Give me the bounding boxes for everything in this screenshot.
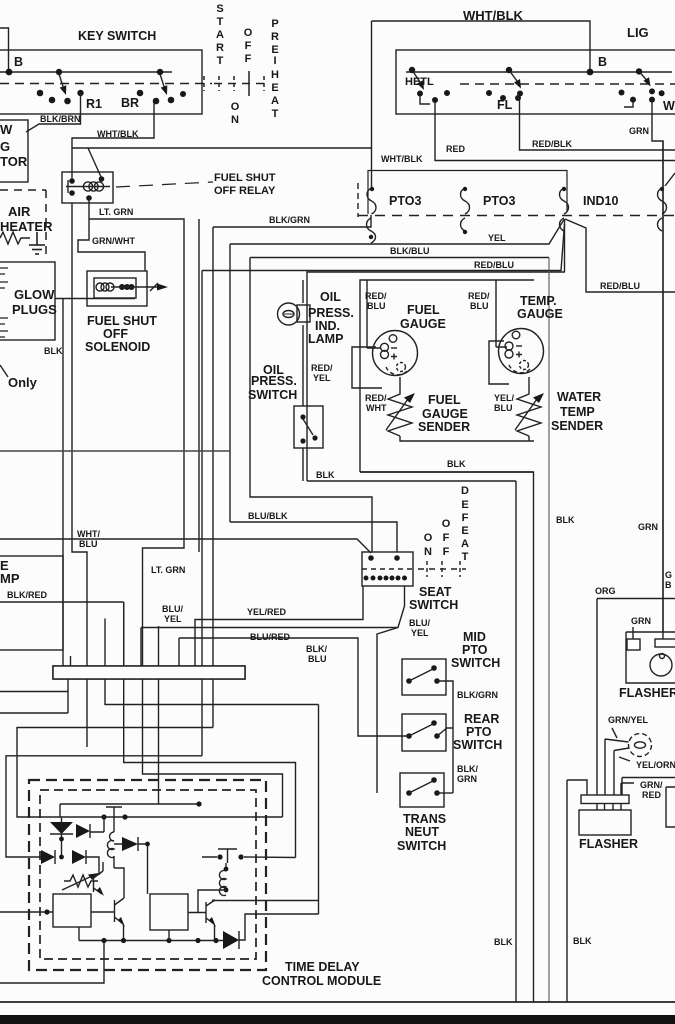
svg-text:FUEL: FUEL — [407, 303, 440, 317]
svg-text:RED/: RED/ — [365, 291, 387, 301]
glow resistor box (left, cut) — [0, 120, 28, 182]
svg-text:R: R — [271, 31, 279, 43]
svg-text:GRN: GRN — [457, 774, 477, 784]
svg-text:PTO3: PTO3 — [389, 194, 421, 208]
svg-text:RED/BLK: RED/BLK — [532, 139, 572, 149]
svg-text:LT. GRN: LT. GRN — [99, 207, 133, 217]
svg-text:F: F — [245, 40, 252, 52]
svg-text:GRN: GRN — [638, 522, 658, 532]
svg-text:RED/BLU: RED/BLU — [600, 281, 640, 291]
svg-text:WHT/BLK: WHT/BLK — [463, 8, 524, 23]
coil L3 (module) — [198, 863, 228, 913]
wire x213 (BLK/GRN ground run) — [212, 227, 214, 728]
connector #4 (right) — [658, 187, 667, 231]
connector row frame — [368, 171, 567, 215]
svg-text:LT. GRN: LT. GRN — [151, 565, 185, 575]
IC block A2 — [150, 894, 188, 930]
wire RED/BLU right — [565, 219, 675, 292]
connector PTO3 #1 — [367, 187, 377, 243]
bus bar overlay — [53, 666, 245, 679]
svg-text:HETL: HETL — [405, 76, 434, 88]
svg-text:SWITCH: SWITCH — [397, 839, 446, 853]
wire BR to relay and WHT/BLK feed — [72, 103, 154, 181]
light switch box — [396, 50, 675, 114]
svg-text:BLU/BLK: BLU/BLK — [248, 511, 288, 521]
wire y628 — [141, 628, 398, 667]
oil pressure indicator lamp — [278, 303, 311, 325]
DEFEAT column — [424, 485, 469, 563]
wire seat diag feed — [0, 539, 371, 553]
svg-text:FUEL SHUT: FUEL SHUT — [87, 314, 157, 328]
svg-text:P: P — [271, 18, 278, 30]
wire x158 BLU/YEL#2 — [60, 626, 199, 804]
svg-text:BLU: BLU — [367, 301, 386, 311]
key switch dashed position line — [0, 83, 212, 85]
svg-text:YEL/RED: YEL/RED — [247, 607, 287, 617]
svg-text:BLK/BRN: BLK/BRN — [40, 114, 81, 124]
key switch contact dots row 2 — [137, 90, 186, 105]
key switch contact line — [0, 71, 172, 73]
svg-text:G: G — [665, 570, 672, 580]
svg-text:BLK/GRN: BLK/GRN — [269, 215, 310, 225]
svg-text:PTO: PTO — [466, 725, 492, 739]
svg-text:GAUGE: GAUGE — [517, 307, 563, 321]
svg-text:GLOW: GLOW — [14, 287, 55, 302]
wire GRN to flasher1 — [662, 141, 664, 639]
svg-text:MID: MID — [463, 630, 486, 644]
diode D6 — [223, 914, 319, 949]
svg-text:BLK/RED: BLK/RED — [7, 590, 47, 600]
svg-text:ORG: ORG — [595, 586, 616, 596]
wires into bus bar top — [62, 650, 64, 666]
IC block A1 — [53, 894, 91, 927]
key switch contact dots row 1 — [37, 90, 84, 105]
wire HETL RED drop — [435, 102, 675, 161]
svg-text:YEL: YEL — [488, 233, 506, 243]
wire diag right edge — [665, 173, 675, 186]
wire GRN from light switch — [652, 102, 663, 632]
wire ORG — [597, 599, 675, 796]
wire x621 — [621, 783, 634, 795]
svg-text:B: B — [14, 55, 23, 69]
svg-text:FL: FL — [497, 98, 513, 112]
svg-text:IND.: IND. — [315, 319, 340, 333]
relay contact K1 (module) — [202, 849, 296, 863]
svg-text:SENDER: SENDER — [418, 420, 470, 434]
wire module ground exit — [0, 941, 104, 984]
svg-text:IND10: IND10 — [583, 194, 618, 208]
seat switch position ticks — [418, 561, 466, 577]
ground (air heater) — [29, 232, 45, 254]
svg-text:F: F — [443, 532, 450, 544]
svg-text:REAR: REAR — [464, 712, 499, 726]
label leaders — [612, 728, 617, 738]
svg-text:BLU/RED: BLU/RED — [250, 632, 290, 642]
air heater resistor — [0, 232, 30, 244]
svg-text:BLK: BLK — [316, 470, 335, 480]
svg-text:E: E — [271, 82, 278, 94]
wire x213 to module — [17, 728, 213, 818]
connector IND10 — [560, 187, 569, 231]
svg-text:FUEL SHUT: FUEL SHUT — [214, 172, 276, 184]
fuel gauge bracket — [352, 347, 382, 388]
svg-text:W.: W. — [663, 99, 675, 113]
wire fuel gauge feed — [367, 280, 380, 348]
wire A1 bottom — [78, 927, 80, 941]
key switch position ticks — [204, 71, 270, 96]
svg-text:WHT: WHT — [366, 403, 387, 413]
svg-text:GRN/: GRN/ — [640, 780, 663, 790]
svg-text:BLK: BLK — [494, 937, 513, 947]
svg-text:T: T — [272, 108, 279, 120]
svg-text:RED/: RED/ — [311, 363, 333, 373]
wire BLK/GRN pto3 — [213, 215, 371, 227]
svg-text:SEAT: SEAT — [419, 585, 452, 599]
oil pressure switch S1 — [294, 406, 323, 448]
START column — [216, 3, 279, 126]
wire rear pto chain — [452, 736, 454, 793]
wire lamp top to box — [302, 280, 304, 303]
svg-text:YEL/ORN: YEL/ORN — [636, 760, 675, 770]
wire BLK ground drop x528 — [533, 472, 535, 1002]
svg-text:GRN: GRN — [631, 616, 651, 626]
lamp box left (cut) — [0, 556, 63, 650]
svg-text:GRN: GRN — [629, 126, 649, 136]
svg-text:BLU/: BLU/ — [162, 604, 183, 614]
svg-text:RED: RED — [642, 790, 662, 800]
wire seat feed left — [250, 258, 372, 553]
svg-text:GRN/YEL: GRN/YEL — [608, 715, 649, 725]
svg-text:T: T — [462, 551, 469, 563]
wires to flasher2 — [605, 739, 629, 795]
svg-text:SWITCH: SWITCH — [248, 388, 297, 402]
wire mid pto down — [437, 681, 453, 736]
wires below bus bar — [0, 679, 68, 713]
dashed border left (air heater region) — [0, 189, 46, 191]
wire YEL to IND10 — [230, 220, 564, 245]
wire BLU/RED to rear pto — [179, 638, 409, 736]
seat switch S2 — [362, 552, 413, 586]
rear pto switch S4 — [402, 714, 453, 751]
svg-text:PTO: PTO — [462, 643, 488, 657]
wire WHT/BLK to PTO3 — [72, 147, 372, 149]
flasher 2 connector — [579, 795, 631, 835]
svg-text:BLK/: BLK/ — [306, 644, 327, 654]
svg-text:WATER: WATER — [557, 390, 601, 404]
light switch dashed position line — [460, 83, 675, 85]
svg-text:YEL: YEL — [313, 373, 331, 383]
svg-text:NEUT: NEUT — [405, 825, 439, 839]
svg-text:S: S — [216, 3, 223, 15]
resistor R1 (module) — [64, 875, 98, 887]
svg-text:FLASHER: FLASHER — [579, 837, 638, 851]
svg-text:FUEL: FUEL — [428, 393, 461, 407]
connector row dashed left riser — [357, 183, 359, 217]
wire BLK gauge inner box bottom — [360, 471, 534, 473]
svg-text:RED: RED — [446, 144, 466, 154]
inner lamp rect — [666, 787, 675, 827]
svg-text:RED/: RED/ — [468, 291, 490, 301]
svg-text:HEATER: HEATER — [0, 219, 53, 234]
svg-text:BLK: BLK — [556, 515, 575, 525]
light switch contact line — [406, 71, 672, 73]
svg-text:TIME DELAY: TIME DELAY — [285, 960, 360, 974]
svg-text:SOLENOID: SOLENOID — [85, 340, 150, 354]
svg-text:SWITCH: SWITCH — [451, 656, 500, 670]
wire BLK/BLU to x551 — [250, 257, 549, 259]
wire module entry y912 — [0, 911, 53, 913]
wire WHT/BLK riser to light switch — [372, 21, 591, 188]
wire sender ground bus — [400, 436, 534, 441]
svg-text:KEY SWITCH: KEY SWITCH — [78, 29, 156, 43]
wire FL RED/BLK drop — [520, 100, 675, 150]
light switch blade FL — [486, 67, 523, 101]
svg-text:A: A — [461, 538, 469, 550]
module cap contact top — [106, 807, 122, 817]
svg-text:WHT/BLK: WHT/BLK — [381, 154, 423, 164]
diode D4 — [41, 850, 55, 864]
diode D5 — [72, 850, 86, 864]
svg-text:R1: R1 — [86, 97, 102, 111]
wire top-left entry — [0, 28, 9, 72]
svg-text:R: R — [216, 42, 224, 54]
module top rail — [51, 816, 283, 818]
wire lamp to switch RED/YEL — [302, 325, 304, 406]
wire x202 to module — [6, 756, 202, 857]
svg-text:A: A — [271, 95, 279, 107]
relay label leader (dashed) — [116, 182, 213, 187]
diode D1 — [50, 822, 73, 834]
wire V1 left vertical — [62, 299, 64, 651]
svg-text:BLU/: BLU/ — [409, 618, 430, 628]
turn signal lamp circle — [629, 734, 652, 757]
gauge cluster inner box — [360, 280, 534, 472]
svg-text:N: N — [424, 546, 432, 558]
svg-text:MP: MP — [0, 571, 20, 586]
fuel gauge sender R2 — [386, 377, 415, 436]
key switch box — [0, 50, 202, 114]
fuel shut off relay U1 — [62, 172, 113, 203]
temp gauge bracket — [489, 341, 509, 384]
svg-text:F: F — [462, 512, 469, 524]
diesel-only diagonal — [0, 365, 8, 377]
svg-text:BLK/BLU: BLK/BLU — [390, 246, 430, 256]
wire x202 (RED/BLU feed) — [201, 271, 203, 756]
svg-text:OFF RELAY: OFF RELAY — [214, 185, 276, 197]
fuel gauge G1 — [373, 331, 418, 376]
svg-text:B: B — [665, 580, 672, 590]
svg-text:YEL/: YEL/ — [494, 393, 515, 403]
diode D2 — [76, 824, 90, 838]
svg-text:RED/BLU: RED/BLU — [474, 260, 514, 270]
svg-text:PRESS.: PRESS. — [251, 374, 297, 388]
wire flasher2 left box — [567, 780, 587, 1002]
svg-text:E: E — [461, 499, 468, 511]
flasher 1 box — [626, 632, 675, 683]
svg-text:G: G — [0, 139, 10, 154]
wire BLU/YEL seat to trans — [377, 586, 405, 793]
time delay control module inner dashed box — [40, 790, 256, 959]
svg-text:Only: Only — [8, 375, 38, 390]
svg-text:OIL: OIL — [320, 290, 341, 304]
wire BLK/RED lamp to module — [0, 602, 296, 858]
svg-text:PLUGS: PLUGS — [12, 302, 57, 317]
transistor Q2 — [91, 856, 125, 941]
wire long horizontal y451 — [0, 450, 230, 452]
svg-text:PRESS.: PRESS. — [308, 306, 354, 320]
svg-text:BLU: BLU — [494, 403, 513, 413]
bottom scan bar — [0, 1015, 675, 1024]
svg-text:T: T — [217, 55, 224, 67]
connector row dashed line — [358, 215, 675, 217]
svg-text:F: F — [245, 53, 252, 65]
svg-text:SWITCH: SWITCH — [453, 738, 502, 752]
key switch blade 2 — [157, 69, 168, 95]
right lamp box — [622, 778, 675, 796]
svg-text:RED/: RED/ — [365, 393, 387, 403]
wire GRN/WHT relay to solenoid — [78, 198, 145, 271]
module junction verticals — [61, 817, 63, 857]
bus bar — [53, 666, 245, 679]
svg-text:TOR: TOR — [0, 154, 28, 169]
wire x199 — [198, 219, 200, 552]
svg-text:AIR: AIR — [8, 204, 31, 219]
svg-text:SWITCH: SWITCH — [409, 598, 458, 612]
svg-text:BR: BR — [121, 96, 139, 110]
svg-text:I: I — [273, 55, 276, 67]
svg-text:A: A — [216, 29, 224, 41]
svg-text:GRN/WHT: GRN/WHT — [92, 236, 135, 246]
temp sender R3 — [515, 377, 544, 436]
svg-text:TEMP: TEMP — [560, 405, 595, 419]
gauge cluster outer box — [307, 272, 565, 481]
wire V2 (WHT/BLU) — [72, 203, 87, 747]
svg-text:GAUGE: GAUGE — [422, 407, 468, 421]
glow plug elements — [0, 268, 8, 337]
connector PTO3 #2 — [461, 187, 470, 234]
node B light switch — [587, 69, 594, 76]
coil L2 — [107, 817, 114, 857]
svg-text:TEMP.: TEMP. — [520, 294, 557, 308]
time delay control module outer dashed box — [29, 780, 266, 970]
temp gauge G2 — [499, 329, 544, 374]
wire seat bottom left — [195, 586, 363, 666]
svg-text:B: B — [598, 55, 607, 69]
svg-text:BLU: BLU — [308, 654, 327, 664]
module bottom bus — [79, 940, 223, 942]
light switch blade W — [619, 68, 665, 107]
wire gray drop x551 — [548, 258, 550, 1003]
diode D3 — [114, 837, 150, 894]
wire R1 drop — [26, 93, 81, 132]
wire RED/BLU to IND10 — [202, 224, 565, 271]
svg-text:D: D — [461, 485, 469, 497]
svg-text:YEL: YEL — [164, 614, 182, 624]
wire BLU/BLK to seat — [230, 522, 397, 552]
fuel shut off solenoid L1 — [87, 271, 168, 306]
svg-text:O: O — [231, 101, 240, 113]
svg-text:O: O — [442, 518, 451, 530]
wire x231 (YEL / BLU-BLK riser) — [229, 244, 231, 522]
svg-text:BLK: BLK — [573, 936, 592, 946]
transistor Q1 — [94, 862, 105, 896]
wire temp gauge feed — [496, 280, 507, 347]
wire Q3 collector exit — [212, 900, 319, 902]
module sub rail — [59, 804, 61, 817]
svg-text:LAMP: LAMP — [308, 332, 343, 346]
svg-text:GAUGE: GAUGE — [400, 317, 446, 331]
wire LT.GRN relay to bus — [89, 219, 184, 666]
svg-text:T: T — [217, 16, 224, 28]
svg-text:O: O — [424, 532, 433, 544]
svg-text:YEL: YEL — [411, 628, 429, 638]
svg-text:SENDER: SENDER — [551, 419, 603, 433]
svg-text:CONTROL MODULE: CONTROL MODULE — [262, 974, 381, 988]
svg-text:N: N — [231, 114, 239, 126]
wire IND10 pigtail down — [564, 219, 566, 272]
transistor Q3 — [188, 900, 216, 941]
svg-text:BLK: BLK — [44, 346, 63, 356]
svg-text:BLK: BLK — [447, 459, 466, 469]
bottom rail full width — [0, 1001, 675, 1003]
svg-text:BLK/: BLK/ — [457, 764, 478, 774]
trans neut switch S5 — [400, 773, 453, 807]
svg-text:H: H — [271, 69, 279, 81]
svg-text:W: W — [0, 122, 13, 137]
wire BLK ground drop x516 — [515, 481, 517, 1002]
svg-text:BLU: BLU — [470, 301, 489, 311]
svg-text:LIG: LIG — [627, 25, 649, 40]
svg-text:OFF: OFF — [103, 327, 128, 341]
wire BLK glow plugs to solenoid — [55, 298, 135, 300]
svg-text:F: F — [443, 546, 450, 558]
svg-text:PTO3: PTO3 — [483, 194, 515, 208]
svg-text:E: E — [461, 525, 468, 537]
mid pto switch S3 — [402, 659, 446, 695]
glow plugs box — [0, 262, 55, 340]
key switch blade 1 — [56, 69, 67, 95]
svg-text:O: O — [244, 27, 253, 39]
svg-text:FLASHER: FLASHER — [619, 686, 675, 700]
svg-text:BLK/GRN: BLK/GRN — [457, 690, 498, 700]
node B (key switch battery terminal) — [6, 69, 13, 76]
light switch blade HETL — [409, 67, 450, 104]
wire relay pin diagonal — [88, 148, 102, 178]
riser x318 — [318, 705, 320, 915]
variable resistor arrow — [62, 876, 92, 890]
svg-text:TRANS: TRANS — [403, 812, 446, 826]
svg-text:WHT/BLK: WHT/BLK — [97, 129, 139, 139]
svg-text:BLU: BLU — [79, 539, 98, 549]
svg-text:WHT/: WHT/ — [77, 529, 100, 539]
wire oil switch ground BLK — [302, 448, 304, 481]
